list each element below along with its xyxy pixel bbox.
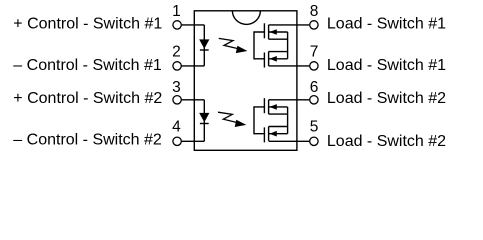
svg-text:3: 3 (172, 79, 181, 96)
svg-text:6: 6 (310, 79, 319, 96)
svg-text:2: 2 (172, 44, 181, 61)
svg-text:7: 7 (310, 44, 319, 61)
svg-text:+ Control - Switch #2: + Control - Switch #2 (13, 90, 162, 107)
svg-text:Load - Switch #2: Load - Switch #2 (327, 133, 446, 150)
svg-text:– Control - Switch #2: – Control - Switch #2 (13, 132, 162, 149)
svg-text:8: 8 (310, 3, 319, 20)
svg-text:– Control - Switch #1: – Control - Switch #1 (13, 57, 162, 74)
svg-text:5: 5 (310, 119, 319, 136)
svg-text:+ Control - Switch #1: + Control - Switch #1 (13, 16, 162, 33)
svg-text:Load - Switch #1: Load - Switch #1 (327, 57, 446, 74)
svg-text:Load - Switch #1: Load - Switch #1 (327, 16, 446, 33)
svg-text:1: 1 (172, 3, 181, 20)
svg-text:Load - Switch #2: Load - Switch #2 (327, 90, 446, 107)
svg-text:4: 4 (172, 119, 181, 136)
